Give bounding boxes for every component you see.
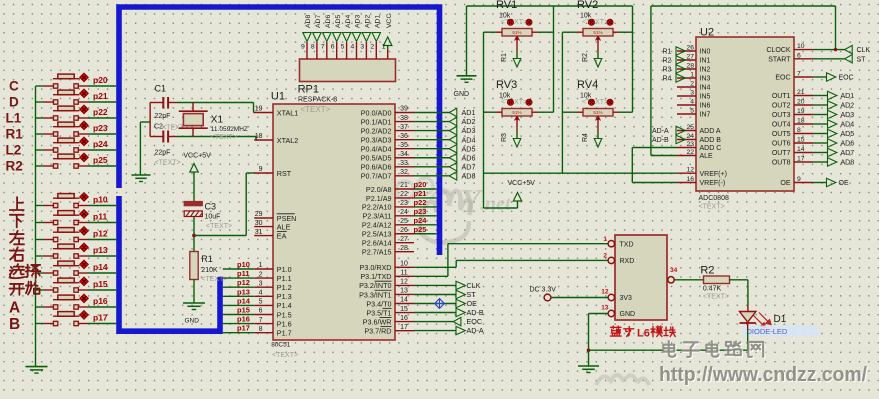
node R2 terminal into IN1 [676,56,685,64]
label: bluetooth module name [610,326,621,336]
wire/net p22 to bus [414,206,437,208]
svg-text:ADD B: ADD B [700,137,722,144]
svg-text:p24: p24 [93,139,108,149]
wire: RST link [194,235,246,237]
svg-text:26: 26 [400,227,408,234]
svg-text:p11: p11 [237,269,250,278]
pin 11 P3.1/TXD [395,275,414,277]
wire: C1/C2 left vertical + ground tap [149,103,151,137]
svg-text:p12: p12 [237,278,250,287]
ground: reset circuit ground [183,302,205,304]
key label for p11 [10,215,24,228]
wire/net p24 to bus [414,224,437,226]
svg-text:AD8: AD8 [462,171,476,180]
svg-text:P2.4/A12: P2.4/A12 [362,221,392,230]
svg-text:B: B [9,316,20,333]
pin 27 P2.6/A14 [395,242,414,244]
svg-text:P0.3/AD3: P0.3/AD3 [361,135,392,144]
wire/net OE terminal near U1 [414,303,456,305]
wire: switch common bus (left vertical) [35,86,37,366]
RP1 pin 4 net AD3 [356,42,358,59]
svg-text:17: 17 [400,324,408,331]
switch p23 (push button, key "R1") [36,133,44,135]
pin 20 OUT2 with net AD2 [794,104,813,106]
svg-text:14: 14 [797,146,805,153]
svg-text:3V3: 3V3 [620,295,633,302]
svg-text:P3.3/INT1: P3.3/INT1 [359,290,391,299]
pin 26 P2.5/A13 [395,233,414,235]
switch p20 (push button, key "C") [36,85,44,87]
svg-text:IN4: IN4 [700,85,711,92]
svg-text:33: 33 [400,160,408,167]
svg-text:AD1: AD1 [375,15,382,28]
svg-text:RXD: RXD [620,258,635,265]
switch p17 (push button) [36,323,44,325]
watermark: faint rings near P2 labels [396,178,452,199]
pin 16 VREF(-) [677,182,696,184]
key label for p10 [10,197,24,210]
wire: P3.0 to bluetooth RXD [414,266,456,268]
svg-text:OE: OE [467,299,478,308]
wire: ALE up to CLOCK rail [651,155,677,157]
svg-text:21: 21 [400,182,408,189]
watermark: faint marks right of U1 [350,198,393,218]
pin 12 P3.2/INT0 [395,284,414,286]
switch p21 (push button, key "D") [36,101,44,103]
pin 12 VREF(+) [677,172,696,174]
svg-text:24: 24 [400,209,408,216]
svg-text:39: 39 [400,106,408,113]
pin 8 P1.7 with net p17 [254,332,273,334]
wire: C2 to XTAL2 [177,136,256,138]
pin 9 OE with net OE [794,182,813,184]
svg-text:13: 13 [601,305,609,312]
bluetooth module body [615,235,667,320]
svg-text:9: 9 [797,176,801,183]
svg-text:P3.6/WR: P3.6/WR [363,317,392,326]
switch p24 (push button, key "L2") [36,149,44,151]
pin 16 P3.6/WR [395,321,414,323]
svg-text:P0.5/AD5: P0.5/AD5 [361,154,392,163]
svg-text:AD-A: AD-A [652,128,669,135]
op-amp U1 80C51 MCU body [273,104,395,340]
svg-text:8: 8 [259,326,263,333]
svg-text:AD2: AD2 [365,15,372,28]
svg-text:20: 20 [797,99,805,106]
svg-text:DIODE-LED: DIODE-LED [747,327,788,336]
svg-text:R3: R3 [663,67,672,74]
pin 21 OUT1 with net AD1 [794,95,813,97]
svg-text:CLK: CLK [467,281,481,290]
svg-text:P0.7/AD7: P0.7/AD7 [361,172,392,181]
wire/net p23 to bus [414,215,437,217]
wire: RV1/RV3 right rail to GND top rail [553,6,555,112]
RP1 pin 9 net AD8 [306,42,308,59]
svg-text:12: 12 [400,279,408,286]
svg-text:18: 18 [255,133,263,140]
svg-text:p22: p22 [93,107,108,117]
watermark: faint Y.net left of RV1 [460,183,512,220]
svg-text:P3.1/TXD: P3.1/TXD [360,272,391,281]
key label for p15 [9,284,24,295]
svg-text:23: 23 [400,200,408,207]
pin 5 IN7 [677,113,696,115]
svg-text:OUT8: OUT8 [772,160,791,167]
wire/net AD-A terminal near U1 [414,330,456,332]
svg-text:<TEXT>: <TEXT> [272,352,298,359]
svg-text:6: 6 [259,308,263,315]
svg-text:<TEXT>: <TEXT> [501,19,527,26]
svg-text:.net: .net [480,193,512,215]
svg-text:R2: R2 [582,53,589,62]
ground: bluetooth/LED ground [578,365,599,367]
svg-text:31: 31 [255,229,263,236]
svg-text:p21: p21 [93,91,108,101]
node AD5 terminal [449,145,457,153]
pin 15 P3.5/T1 [395,312,414,314]
pin 13 GND of bluetooth module [608,310,614,316]
pin 1 TXD of bluetooth module [608,241,614,247]
svg-text:AD6: AD6 [325,15,332,28]
svg-text:XTAL2: XTAL2 [277,136,298,145]
diode D1 DIODE-LED [740,312,756,323]
svg-text:2: 2 [259,271,263,278]
svg-text:34: 34 [400,151,408,158]
svg-text:P0.2/AD2: P0.2/AD2 [361,126,392,135]
svg-text:26: 26 [686,45,694,52]
svg-text:P1.6: P1.6 [277,319,292,328]
wire: RV2/RV4 right rail to GND top rail [632,6,634,112]
wire: P0.0 to net AD1 [414,112,449,114]
svg-text:R2: R2 [663,58,672,65]
svg-text:ADD C: ADD C [700,145,722,152]
resistor pack RP1 RESPACK-8 [300,59,396,82]
wire/net p25 to bus [414,233,437,235]
capacitor C2 22pF [150,136,163,138]
pin 29 PSEN [254,217,273,219]
svg-text:IN0: IN0 [700,49,711,56]
svg-text:P0.1/AD1: P0.1/AD1 [361,117,392,126]
svg-text:51%: 51% [593,30,602,35]
wire: thick blue bus (bottom segment to P1 pins) [119,196,220,331]
svg-text:R4: R4 [663,76,672,83]
svg-text:D: D [9,95,19,110]
svg-text:p15: p15 [93,279,108,289]
pin 6 P1.5 with net p15 [254,314,273,316]
svg-text:XTAL1: XTAL1 [277,108,298,117]
wire: R2 to LED [730,279,748,281]
svg-text:21: 21 [797,89,805,96]
svg-text:19: 19 [255,106,263,113]
svg-text:27: 27 [686,54,694,61]
wire: P0.4 to net AD5 [414,148,449,150]
svg-text:AD2: AD2 [841,103,855,110]
svg-text:L2: L2 [6,143,22,158]
svg-text:<TEXT>: <TEXT> [155,160,181,167]
pin 36 P0.3/AD3 [395,139,414,141]
switch p16 (push button) [36,306,44,308]
svg-text:R1: R1 [201,254,213,264]
svg-text:11: 11 [400,270,407,277]
wire/net p21 to bus [414,197,437,199]
svg-text:p13: p13 [237,287,250,296]
svg-text:P2.0/A8: P2.0/A8 [366,185,392,194]
svg-text:p17: p17 [93,312,108,322]
pin 10 P3.0/RXD [395,266,414,268]
label: DIODE-LED with selection highlight [743,326,819,337]
svg-text:22pF: 22pF [155,150,171,157]
svg-text:L6: L6 [637,328,650,340]
pin 2 P1.1 with net p11 [254,277,273,279]
svg-text:2: 2 [690,81,694,88]
node: origin marker on OE wire [435,299,445,309]
svg-text:ADD A: ADD A [700,128,721,135]
RP1 pin 5 net AD4 [346,42,348,59]
svg-text:22: 22 [686,149,694,156]
svg-text:L1: L1 [6,111,22,126]
pin 35 P0.4/AD4 [395,148,414,150]
switch p22 (push button, key "L1") [36,117,44,119]
RP1 pin 7 net AD6 [326,42,328,59]
svg-text:p20: p20 [93,75,108,85]
svg-text:25: 25 [686,124,694,131]
pin 1 P1.0 with net p10 [254,268,273,270]
svg-text:AD-A: AD-A [467,326,484,335]
svg-text:P1.3: P1.3 [277,292,292,301]
svg-text:<TEXT>: <TEXT> [301,105,331,114]
pin 4 IN6 [677,104,696,106]
svg-text:ALE: ALE [700,153,714,160]
svg-text:22pF: 22pF [155,113,171,120]
svg-text:9: 9 [301,43,305,50]
wire: R1 to ground [193,280,195,303]
svg-text:51%: 51% [512,30,521,35]
svg-text:AD1: AD1 [841,93,855,100]
svg-text:TXD: TXD [620,241,634,248]
key label for p13 [10,247,24,261]
pin 22 P2.1/A9 [395,197,414,199]
svg-text:R1: R1 [501,53,508,62]
svg-text:13: 13 [400,288,408,295]
svg-text:R3: R3 [501,133,508,142]
pin 18 XTAL2 [254,139,273,141]
svg-text:10: 10 [797,43,805,50]
node AD8 terminal [449,172,457,180]
svg-text:p17: p17 [237,324,250,333]
pin 8 OUT5 with net AD5 [794,133,813,135]
svg-text:<TEXT>: <TEXT> [703,294,729,301]
svg-text:VCC: VCC [386,14,393,28]
svg-text:AD-B: AD-B [467,308,484,317]
svg-text:DC 3.3V: DC 3.3V [530,286,557,293]
svg-text:16: 16 [686,176,694,183]
svg-text:P2.2/A10: P2.2/A10 [362,203,392,212]
svg-text:p11: p11 [93,211,107,221]
svg-text:AD1: AD1 [462,108,476,117]
svg-text:P3.7/RD: P3.7/RD [364,326,391,335]
pin 27 IN1 [677,59,696,61]
wire/net p20 to bus [414,188,437,190]
wire: LED cathode down to ground rail [747,324,749,331]
RP1 pin 2 net AD1 [375,42,377,59]
svg-text:p23: p23 [93,123,108,133]
switch p13 (push button) [36,255,44,257]
wire: C1 to XTAL1 [177,102,254,104]
svg-text:GND: GND [454,91,470,98]
node AD1 terminal [449,108,457,116]
svg-text:CLOCK: CLOCK [766,47,790,54]
svg-text:<TEXT>: <TEXT> [211,134,237,141]
svg-text:AD2: AD2 [462,117,476,126]
pin 22 ALE [677,155,696,157]
pin 25 P2.4/A12 [395,224,414,226]
svg-text:AD6: AD6 [841,141,855,148]
svg-text:22: 22 [400,191,408,198]
key label for p12 [10,231,24,245]
svg-text:9: 9 [259,166,263,173]
svg-text:OUT4: OUT4 [772,122,791,129]
node AD7 terminal [449,163,457,171]
svg-text:p16: p16 [93,296,108,306]
svg-text:1: 1 [603,236,607,243]
svg-text:p25: p25 [414,225,427,234]
svg-text:OUT2: OUT2 [772,103,791,110]
switch p10 (push button) [36,205,44,207]
pin 19 OUT3 with net AD3 [794,114,813,116]
svg-text:p12: p12 [93,228,108,238]
svg-text:p15: p15 [237,306,250,315]
svg-text:http://www.cndzz.com/: http://www.cndzz.com/ [659,363,867,386]
svg-text:P3.0/RXD: P3.0/RXD [360,263,392,272]
svg-text:AD3: AD3 [355,15,362,28]
svg-text:38: 38 [400,115,408,122]
svg-text:7: 7 [259,317,263,324]
node AD3 terminal [449,126,457,134]
pin 26 IN0 [677,50,696,52]
svg-text:AD5: AD5 [335,15,342,28]
pin 18 OUT4 with net AD4 [794,123,813,125]
wire/net CLK terminal near U1 [414,284,456,286]
svg-text:VCC+5V: VCC+5V [508,180,536,187]
svg-text:p10: p10 [237,260,250,269]
svg-text:AD8: AD8 [841,160,855,167]
svg-text:P1.7: P1.7 [277,329,292,338]
svg-text:17: 17 [797,156,805,163]
node R1 terminal into IN0 [676,47,685,55]
pin 37 P0.2/AD2 [395,130,414,132]
svg-text:11.0592MHZ: 11.0592MHZ [211,126,248,133]
svg-text:12: 12 [686,167,694,174]
wire: P0.6 to net AD7 [414,166,449,168]
svg-text:10uF: 10uF [205,214,221,221]
svg-text:23: 23 [686,141,694,148]
svg-text:OUT6: OUT6 [772,141,791,148]
svg-text:29: 29 [255,211,263,218]
svg-text:<TEXT>: <TEXT> [501,99,527,106]
svg-text:EOC: EOC [775,75,790,82]
pin 4 P1.3 with net p13 [254,295,273,297]
pin 3 P1.2 with net p12 [254,286,273,288]
svg-text:1: 1 [259,262,263,269]
svg-text:AD8: AD8 [305,15,312,28]
svg-text:5: 5 [341,43,345,50]
svg-text:35: 35 [400,142,408,149]
pin 14 OUT7 with net AD7 [794,152,813,154]
svg-text:<TEXT>: <TEXT> [699,204,725,211]
wire/net ST terminal near U1 [414,294,456,296]
svg-text:U2: U2 [700,27,714,39]
svg-text:18: 18 [797,118,805,125]
pin 32 P0.7/AD7 [395,175,414,177]
svg-text:p16: p16 [237,315,250,324]
wire: rail down to CLOCK pin [835,6,837,50]
svg-text:RV3: RV3 [496,79,517,91]
pin 9 RST [254,172,273,174]
svg-text:U1: U1 [271,91,285,103]
svg-text:8: 8 [311,43,315,50]
svg-text:27: 27 [400,236,408,243]
svg-text:<TEXT>: <TEXT> [201,276,227,283]
svg-text:START: START [768,56,791,63]
pin 7 P1.6 with net p16 [254,323,273,325]
svg-text:AD7: AD7 [462,162,476,171]
svg-text:R4: R4 [582,133,589,142]
svg-text:P1.4: P1.4 [277,301,292,310]
svg-text:AD3: AD3 [462,126,476,135]
watermark: faint hand bottom center [596,375,649,385]
svg-text:AD7: AD7 [841,150,855,157]
svg-text:GND: GND [620,311,636,318]
pin 39 P0.0/AD0 [395,112,414,114]
wire: P0.7 to net AD8 [414,175,449,177]
svg-text:6: 6 [331,43,335,50]
pin 12 3V3 of bluetooth module [608,294,614,300]
svg-text:ST: ST [857,56,867,63]
svg-text:p21: p21 [414,189,427,198]
svg-text:2: 2 [603,253,607,260]
svg-text:p22: p22 [414,198,427,207]
switch p15 (push button) [36,289,44,291]
svg-text:OUT3: OUT3 [772,112,791,119]
pin 14 P3.4/T0 [395,303,414,305]
svg-text:10: 10 [400,261,408,268]
svg-text:P2.7/A15: P2.7/A15 [362,247,392,256]
pin 3 IN5 [677,95,696,97]
wire: P3.1 to bluetooth TXD [414,275,448,277]
pin 34 (right) of bluetooth module [668,277,674,283]
svg-text:P0.0/AD0: P0.0/AD0 [361,108,392,117]
capacitor C1 22pF [150,102,163,104]
wire: P0.2 to net AD3 [414,130,449,132]
wire: C3 to R1 with RST tap [193,217,195,252]
svg-text:RV2: RV2 [577,0,598,11]
svg-text:RV4: RV4 [577,79,598,91]
svg-text:IN5: IN5 [700,94,711,101]
svg-text:P2.6/A14: P2.6/A14 [362,239,392,248]
svg-text:IN3: IN3 [700,76,711,83]
watermark: faint hand logo left of blue bus [419,191,471,243]
svg-text:IN1: IN1 [700,58,711,65]
op-amp U2 ADC0808 body [696,37,794,191]
svg-text:19: 19 [797,108,805,115]
svg-text:P1.2: P1.2 [277,283,292,292]
svg-text:37: 37 [400,124,408,131]
wire: thick blue bus (top/left/right loop) [119,7,440,255]
pin 34 P0.5/AD5 [395,157,414,159]
svg-text:p20: p20 [414,180,427,189]
svg-text:4: 4 [259,290,263,297]
svg-text:RST: RST [277,169,292,178]
